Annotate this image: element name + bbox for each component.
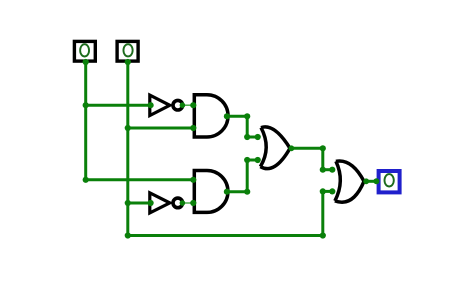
node NOT1 input port bbox=[148, 102, 154, 108]
wire vertical AND2 out up to OR1 bottom level bbox=[246, 160, 249, 192]
inverter U1 (NOT gate) bbox=[150, 95, 183, 115]
node AND2 output port bbox=[224, 189, 230, 195]
node corner AND2 out bbox=[244, 189, 250, 195]
node AND1 output port bbox=[224, 113, 230, 119]
node corner OR2 bottom bbox=[320, 188, 326, 194]
node corner OR2 top bbox=[320, 167, 326, 173]
node output pin port bbox=[373, 178, 379, 184]
wire OR2 output to output pin bbox=[365, 180, 378, 183]
wire stub to OR2 bottom input bbox=[323, 190, 333, 193]
node pin2 bottom corner bbox=[125, 232, 131, 238]
wire pin1 to NOT1 input bbox=[86, 104, 151, 107]
and-gate U4 bbox=[194, 171, 228, 213]
wire NOT1 output leg to AND1 top input bbox=[183, 104, 193, 106]
node junction pin2/AND1 wire bbox=[125, 125, 131, 131]
wire AND2 output bbox=[227, 190, 247, 193]
wire stub to OR2 top input bbox=[323, 168, 333, 171]
wire OR1 output bbox=[291, 147, 323, 150]
wire NOT2 output leg to AND2 bottom input bbox=[183, 202, 193, 204]
node NOT2 input port bbox=[148, 200, 154, 206]
input pin B bbox=[117, 41, 138, 61]
node corner OR1 top bbox=[244, 134, 250, 140]
node corner OR1 bottom bbox=[244, 157, 250, 163]
wire stub to OR1 top input bbox=[247, 136, 258, 139]
wire stub to OR1 bottom input bbox=[247, 159, 258, 162]
node OR1 output port bbox=[289, 145, 295, 151]
node NOT2 output port bbox=[180, 200, 186, 206]
wire bottom run bbox=[128, 234, 323, 237]
wire vertical bottom run up to OR2 bottom level bbox=[321, 191, 324, 235]
node bottom right corner bbox=[320, 232, 326, 238]
wire pin1 to AND2 top input bbox=[86, 178, 194, 181]
node AND2 bottom input port bbox=[190, 200, 196, 206]
wire pin1 vertical bbox=[84, 62, 87, 180]
node OR2 output port bbox=[363, 178, 369, 184]
node junction pin1/NOT1 bbox=[83, 102, 89, 108]
node corner OR1 out bbox=[320, 145, 326, 151]
node corner AND1 out bbox=[244, 113, 250, 119]
node junction pin2/NOT2 bbox=[125, 200, 131, 206]
node AND2 top input port bbox=[190, 177, 196, 183]
wire vertical OR1 out down to OR2 top level bbox=[321, 148, 324, 169]
and-gate U3 bbox=[194, 95, 228, 137]
output pin Y bbox=[379, 171, 400, 192]
wire pin2 vertical bbox=[126, 62, 129, 236]
node NOT1 output port bbox=[180, 102, 186, 108]
or-gate U5 bbox=[260, 127, 290, 169]
inverter U2 (NOT gate) bbox=[150, 193, 183, 213]
node OR1 top input port bbox=[255, 134, 261, 140]
input pin A bbox=[74, 41, 95, 61]
wire AND1 output bbox=[227, 115, 247, 118]
wire pin2 to AND1 bottom input bbox=[128, 127, 194, 130]
node OR2 bottom input port bbox=[329, 188, 335, 194]
node pin2 port bbox=[125, 59, 131, 65]
node pin1 corner bbox=[83, 177, 89, 183]
node pin1 port bbox=[83, 59, 89, 65]
or-gate U6 bbox=[335, 161, 364, 202]
node OR1 bottom input port bbox=[255, 157, 261, 163]
node AND1 top input port bbox=[190, 102, 196, 108]
node OR2 top input port bbox=[329, 167, 335, 173]
wire vertical AND1 out down to OR1 top level bbox=[246, 116, 249, 137]
wire pin2 to NOT2 input bbox=[128, 202, 151, 205]
node AND1 bottom input port bbox=[190, 125, 196, 131]
